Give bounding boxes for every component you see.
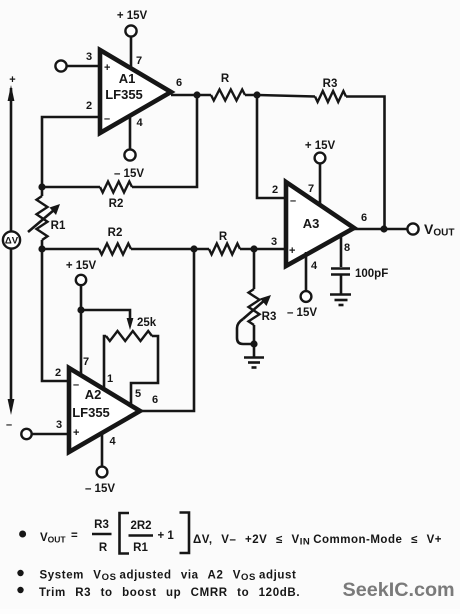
wire left vertical to A2 pin2: [42, 249, 69, 381]
svg-text:+ 15V: + 15V: [305, 140, 336, 152]
resistor R (lower): [209, 244, 240, 255]
note bullet 3: [17, 587, 23, 593]
power +15V terminal A1: [125, 25, 136, 36]
svg-text:R1: R1: [133, 542, 148, 554]
svg-text:+ 15V: + 15V: [117, 10, 148, 22]
terminal input A2 pin3: [21, 429, 31, 439]
svg-text:6: 6: [176, 77, 182, 89]
resistor R1 (gain set, variable): [37, 196, 48, 240]
resistor R (top): [211, 90, 245, 101]
svg-text:7: 7: [136, 55, 142, 67]
svg-text:=: =: [71, 530, 78, 542]
wire R to R3: [245, 95, 315, 97]
resistor R3 (trim rheostat): [249, 289, 260, 325]
power -15V terminal A3: [301, 291, 312, 302]
wire source polarity line upper: [10, 88, 13, 231]
svg-text:7: 7: [83, 356, 89, 368]
svg-text:1: 1: [107, 373, 113, 385]
wire left vertical upper lead: [41, 187, 44, 196]
note bullet 1: [19, 531, 26, 538]
wire A2 pin3 input: [32, 433, 69, 436]
wire A3 pin8 to capacitor: [340, 235, 343, 267]
svg-text:2: 2: [86, 100, 92, 112]
svg-text:A2: A2: [85, 387, 102, 402]
R1 wiper arrow: [28, 204, 60, 232]
svg-text:+: +: [289, 245, 295, 257]
svg-text:–: –: [73, 379, 79, 391]
svg-text:LF355: LF355: [105, 87, 143, 102]
node A1 output junction: [193, 91, 200, 98]
power +15V terminal A2: [76, 275, 86, 285]
node top rail junction: [253, 91, 260, 98]
svg-text:2R2: 2R2: [130, 520, 151, 532]
power -15V terminal A1: [124, 149, 135, 160]
svg-text:ΔV: ΔV: [5, 236, 19, 247]
svg-text:– 15V: – 15V: [85, 483, 115, 495]
wire 25k left end to pin1: [104, 336, 106, 390]
svg-text:LF355: LF355: [72, 405, 110, 420]
potentiometer 25k: [106, 331, 152, 341]
svg-text:+: +: [73, 427, 79, 439]
wire A3 output: [354, 228, 408, 231]
svg-text:–: –: [6, 419, 12, 431]
wire 25k wiper: [81, 310, 130, 322]
node left vertical upper junction: [38, 183, 45, 190]
wire junction to R3 trim: [253, 249, 256, 289]
svg-text:R: R: [221, 73, 230, 85]
svg-text:– 15V: – 15V: [287, 307, 317, 319]
svg-text:VOUT: VOUT: [40, 532, 66, 545]
svg-text:R3: R3: [323, 78, 338, 90]
wire A1 pin4 supply: [129, 114, 132, 149]
svg-text:–: –: [104, 113, 110, 125]
capacitor 100pF: [331, 269, 350, 275]
svg-text:4: 4: [109, 436, 116, 448]
op-amp A3: [286, 182, 354, 266]
R3 wiper arrow with return loop: [237, 295, 271, 344]
svg-text:8: 8: [344, 242, 350, 254]
wire R2 to R (lower rail): [131, 248, 209, 251]
source dV (delta-V input source): [3, 231, 20, 248]
power -15V terminal A2: [97, 467, 108, 478]
svg-text:–: –: [290, 195, 296, 207]
wire 25k right end to pin5: [131, 336, 158, 404]
wire A1 pin2 to feedback vertical: [42, 117, 100, 187]
wire R3 trim to ground: [253, 325, 256, 357]
svg-text:SeekIC.com: SeekIC.com: [343, 579, 455, 601]
wire A3 pin2 input: [257, 95, 286, 198]
note bullet 2: [17, 570, 23, 576]
wire A2 pin4 supply: [101, 434, 104, 467]
resistor R2 (A1 feedback): [100, 182, 132, 193]
svg-text:R: R: [99, 542, 108, 554]
node R3 trim junction: [250, 245, 257, 252]
svg-text:R3: R3: [94, 519, 109, 531]
op-amp A1: [100, 50, 171, 133]
wire left vertical lower lead: [41, 240, 44, 249]
svg-text:100pF: 100pF: [355, 268, 388, 280]
terminal input A1 pin3: [55, 60, 66, 71]
svg-text:Trim R3 to boost up CMRR to 12: Trim R3 to boost up CMRR to 120dB.: [39, 587, 300, 599]
svg-text:25k: 25k: [137, 317, 157, 329]
svg-text:A3: A3: [303, 216, 320, 231]
wire R to A3 pin3: [240, 248, 286, 251]
wire A1 output: [171, 94, 211, 97]
wire A1 output to R2 feedback: [132, 95, 197, 187]
wire A1 pin3 input: [67, 65, 100, 68]
power +15V terminal A3: [315, 153, 326, 164]
svg-text:R1: R1: [51, 220, 66, 232]
wire R2 to left vertical: [42, 186, 100, 189]
terminal output VOUT: [407, 223, 418, 234]
wire source polarity arrow down: [8, 399, 15, 415]
svg-text:ΔV, V– +2V ≤ VINCommon-Mode ≤: ΔV, V– +2V ≤ VINCommon-Mode ≤ V+: [193, 534, 442, 548]
wire source polarity arrow up: [8, 85, 15, 101]
svg-text:3: 3: [86, 51, 92, 63]
node left vertical lower junction: [38, 245, 45, 252]
wire capacitor to ground: [340, 275, 343, 294]
node A2 output junction on lower rail: [190, 245, 197, 252]
svg-text:R3: R3: [262, 311, 277, 323]
svg-text:5: 5: [135, 388, 141, 400]
resistor R3 (feedback): [315, 91, 346, 102]
wire A1 pin7 supply: [130, 37, 133, 69]
node R3 trim bottom junction: [250, 340, 257, 347]
svg-text:4: 4: [136, 117, 143, 129]
wire A2 pin7 supply: [80, 285, 83, 374]
ground (capacitor): [330, 295, 351, 306]
svg-text:4: 4: [311, 260, 318, 272]
svg-text:R2: R2: [109, 198, 124, 210]
wire R3 to A3 output: [346, 97, 385, 230]
resistor R2 (to A3 input): [99, 244, 131, 255]
ground (R3 trim): [244, 358, 264, 368]
op-amp A2: [69, 368, 140, 452]
svg-text:6: 6: [152, 394, 158, 406]
wire A3 pin7 supply: [319, 163, 322, 205]
svg-text:6: 6: [361, 212, 367, 224]
svg-text:+ 15V: + 15V: [66, 260, 97, 272]
svg-text:2: 2: [272, 184, 278, 196]
svg-text:– 15V: – 15V: [114, 168, 144, 180]
wire source polarity line lower: [10, 249, 13, 402]
node A3 output junction: [380, 225, 387, 232]
svg-text:2: 2: [55, 367, 61, 379]
wire lower rail left: [42, 248, 99, 251]
svg-text:R2: R2: [108, 227, 123, 239]
svg-text:+: +: [104, 62, 110, 74]
svg-text:+: +: [9, 74, 15, 86]
svg-text:7: 7: [308, 183, 314, 195]
svg-text:R: R: [219, 231, 228, 243]
25k wiper arrowhead: [127, 318, 134, 330]
wire A3 pin4 supply: [305, 252, 308, 291]
wire A2 output to lower rail: [140, 249, 194, 411]
svg-text:3: 3: [56, 419, 62, 431]
formula VOUT equation: [40, 513, 442, 555]
svg-text:A1: A1: [119, 71, 136, 86]
node 25k wiper junction: [77, 306, 84, 313]
svg-text:3: 3: [271, 236, 277, 248]
svg-text:+ 1: + 1: [158, 530, 175, 542]
